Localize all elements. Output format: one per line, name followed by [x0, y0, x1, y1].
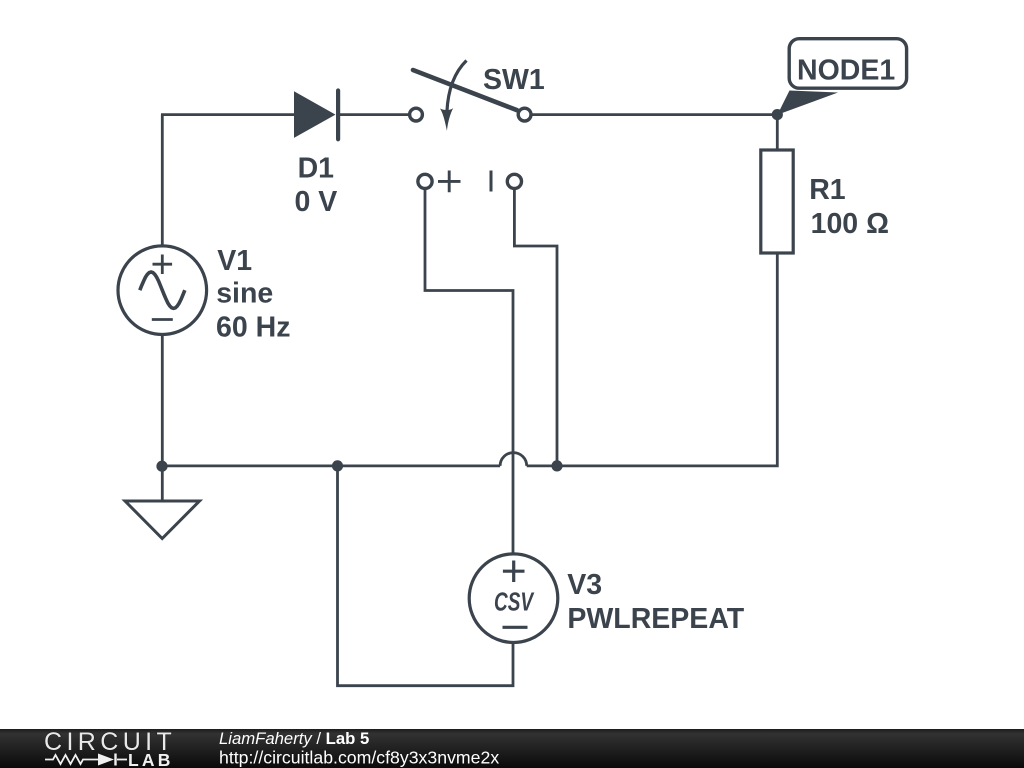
svg-text:100 Ω: 100 Ω: [811, 208, 889, 240]
svg-text:D1: D1: [298, 153, 335, 185]
svg-text:60 Hz: 60 Hz: [216, 312, 290, 344]
voltage source V3: [469, 554, 558, 643]
V1 minus sign: [152, 318, 173, 321]
V1 body circle: [118, 246, 207, 335]
switch SW1 right terminal: [518, 108, 531, 121]
wire bottom rail from hop to ground junction: [162, 464, 500, 467]
logo CircuitLab wordmark: [44, 728, 176, 768]
wire V3 bottom loop back to rail junction: [338, 466, 514, 686]
svg-text:V1: V1: [217, 245, 252, 277]
switch SW1 control terminals: [418, 171, 522, 193]
D1 cathode bar: [336, 91, 340, 140]
V1 plus sign: [153, 255, 173, 275]
svg-text:R1: R1: [809, 174, 846, 206]
svg-text:PWLREPEAT: PWLREPEAT: [567, 603, 744, 635]
wire diode cathode to switch left terminal: [340, 113, 410, 116]
switch SW1 arrow head: [440, 108, 453, 131]
wire switch right terminal to NODE1 junction: [531, 113, 778, 116]
svg-text:V3: V3: [567, 569, 602, 601]
node junction dot at V1/ground: [156, 461, 167, 472]
switch SW1 left terminal: [410, 108, 423, 121]
ground: [125, 501, 200, 539]
wire V1 top vertical: [161, 115, 164, 247]
NODE1 flag box: [789, 39, 906, 88]
svg-text:sine: sine: [216, 278, 273, 310]
switch SW1 plus control terminal: [418, 174, 432, 188]
V1 sine wave symbol: [140, 272, 185, 308]
switch SW1 actuation arrow arc: [447, 61, 467, 113]
wire R1 bottom down to bottom rail corner: [527, 253, 778, 466]
logo resistor-diode glyph: [45, 754, 127, 766]
V3 minus sign: [503, 626, 528, 629]
label V3 value: [567, 569, 745, 635]
node junction dot NODE1: [772, 109, 783, 120]
switch SW1: [410, 61, 531, 122]
NODE1 flag pointer: [777, 91, 838, 115]
switch SW1 plus control polarity mark: [438, 171, 461, 193]
logo diode triangle: [98, 754, 114, 766]
svg-text:LAB: LAB: [128, 750, 174, 768]
wire bottom rail hop over V3 wire: [500, 453, 527, 466]
wire ground junction to ground symbol: [161, 466, 164, 501]
V3 body circle: [469, 554, 558, 643]
node junction dot at SW1 minus control branch: [551, 460, 562, 471]
node NODE1 flag: [777, 39, 906, 115]
wire top-left horizontal from V1 branch to diode anode: [161, 113, 295, 116]
resistor R1: [761, 150, 793, 253]
svg-text:NODE1: NODE1: [797, 54, 895, 86]
svg-text:http://circuitlab.com/cf8y3x3n: http://circuitlab.com/cf8y3x3nvme2x: [219, 747, 499, 767]
label D1 value: [295, 153, 338, 219]
node junction dot at V3 minus branch: [332, 460, 343, 471]
wire SW1 plus-control down right then to V3 top: [425, 190, 513, 555]
D1 anode triangle: [294, 91, 336, 138]
wire NODE1 junction down to R1 top: [776, 115, 779, 150]
label R1 value: [809, 174, 889, 240]
wire V1 bottom to ground junction: [161, 335, 164, 467]
diode D1: [294, 91, 338, 140]
wire SW1 minus-control down to bottom rail junction: [514, 190, 557, 466]
svg-text:LiamFaherty / Lab 5: LiamFaherty / Lab 5: [219, 729, 369, 748]
V3 plus sign: [503, 561, 525, 583]
svg-text:CSV: CSV: [494, 587, 535, 617]
switch SW1 blade: [413, 70, 517, 110]
label V1 value: [216, 245, 290, 344]
svg-text:SW1: SW1: [483, 64, 545, 96]
switch SW1 minus control polarity mark: [490, 171, 493, 192]
svg-text:0 V: 0 V: [295, 186, 338, 218]
switch SW1 minus control terminal: [507, 174, 521, 188]
voltage source V1: [118, 246, 207, 335]
